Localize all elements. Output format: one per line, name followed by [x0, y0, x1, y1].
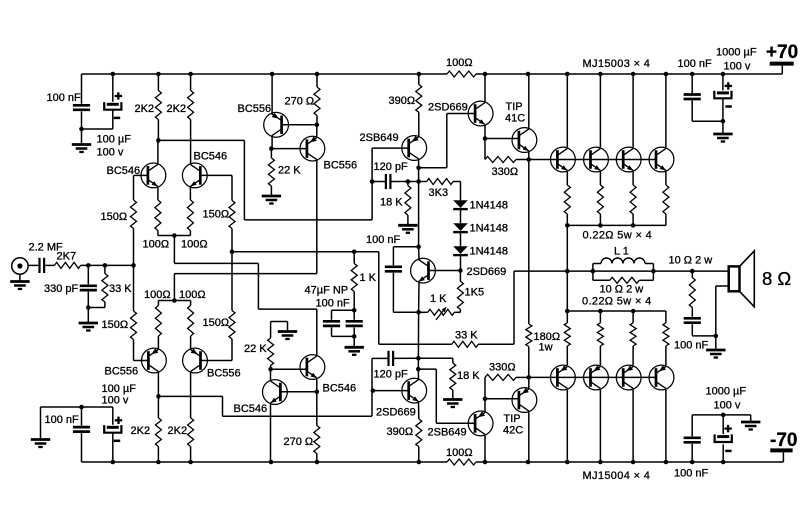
transistor Q BC546 (lower follower) [263, 380, 288, 405]
capacitor C 120pF (lower) [372, 351, 418, 366]
label 100 nF [316, 298, 351, 310]
wire MJ15004-3 collector [632, 390, 634, 462]
junction emitter bus 1 [565, 223, 570, 228]
svg-text:390Ω: 390Ω [387, 426, 414, 438]
label 270 Ω [284, 436, 314, 448]
label 120 pF [374, 369, 409, 381]
wire predriver emitter down [484, 125, 486, 159]
inductor L1 [593, 258, 654, 271]
wire 2SB649 collector to rail [484, 435, 486, 462]
resistor R 2K2 (right load) [188, 74, 194, 164]
transistor Q 2SD669 (lower predriver, in column) [402, 378, 427, 403]
svg-text:2K2: 2K2 [135, 103, 155, 115]
transistor Q 2SD669 (bias Vbe multiplier) [411, 258, 436, 283]
transistor Q 2SD669 (upper predriver) [468, 101, 493, 126]
junction bottom right ground node [721, 413, 726, 418]
junction TIP42C base node [483, 397, 488, 402]
svg-text:3K3: 3K3 [429, 187, 449, 199]
polarity + mark [115, 417, 122, 424]
wire column to lower driver link [417, 358, 419, 369]
svg-text:2K7: 2K7 [57, 251, 77, 263]
svg-text:270 Ω: 270 Ω [285, 96, 315, 108]
svg-text:100Ω: 100Ω [144, 289, 171, 301]
label 1N4148 [470, 246, 509, 258]
resistor R 1K5 [457, 271, 463, 313]
svg-text:100 v: 100 v [102, 394, 129, 406]
label 18 K [380, 197, 403, 209]
svg-text:100 nF: 100 nF [366, 234, 401, 246]
transistor Q TIP42C (lower driver) [512, 388, 537, 413]
ground top right [713, 121, 732, 141]
junction rail at MJ15004-3 collector [631, 460, 636, 465]
svg-text:100 nF: 100 nF [45, 414, 80, 426]
junction rail at predriver collector [483, 72, 488, 77]
label 41C [505, 113, 525, 125]
label BC556 [324, 160, 358, 172]
wire 330Ω lower to emitter node [516, 376, 529, 378]
resistor R 150Ω (outer base, upper) [131, 175, 137, 265]
label 100 nF [678, 58, 713, 70]
resistor R 1K (feedback shunt) [351, 252, 357, 310]
junction TIP41C base node [483, 136, 488, 141]
label 100Ω [179, 289, 206, 301]
polarity - mark [114, 117, 120, 120]
junction 270Ω bottom node [315, 123, 320, 128]
label BC546 [323, 383, 357, 395]
label 2K2 [167, 103, 187, 115]
ground input [10, 274, 29, 289]
label 100 nF [45, 414, 80, 426]
label MJ15003 × 4 [583, 58, 651, 70]
resistor R 2K2 (lower left load) [155, 396, 161, 462]
speaker LS1 [729, 251, 755, 307]
resistor R 0.22Ω 5w #3 (upper) [630, 172, 636, 226]
label 8 Ω [762, 268, 791, 289]
wire Q1 lower collector stub [157, 372, 159, 396]
svg-text:18 K: 18 K [457, 370, 480, 382]
wire lower output base bus [529, 376, 657, 378]
label 100 µF [102, 383, 137, 395]
junction rail at 390Ω top [417, 72, 422, 77]
polarity - mark [725, 105, 731, 108]
potentiometer R 1K [419, 307, 461, 320]
label BC546 [234, 403, 268, 415]
ground 18K upper [398, 225, 417, 233]
svg-text:41C: 41C [505, 113, 525, 125]
junction output at zobel [690, 269, 695, 274]
junction rail at TIP41C collector [526, 72, 531, 77]
svg-text:390Ω: 390Ω [389, 95, 416, 107]
label MJ15004 × 4 [583, 470, 651, 482]
junction rail at 270Ω top [315, 72, 320, 77]
resistor R 3K3 [419, 179, 461, 185]
junction lower riser at predriver base [371, 388, 376, 393]
junction rail at lower 270Ω [315, 460, 320, 465]
wire mid#1 emitter to rail [271, 74, 273, 114]
wire input to cap [28, 264, 38, 266]
wire MJ15003-1 collector [566, 74, 568, 147]
svg-text:2SB649: 2SB649 [428, 426, 467, 438]
svg-text:8 Ω: 8 Ω [762, 268, 791, 289]
input connector J1 [12, 258, 28, 274]
label TIP [506, 101, 523, 113]
svg-text:150Ω: 150Ω [203, 317, 230, 329]
junction output at emitter column [565, 269, 570, 274]
label 100 nF [366, 234, 401, 246]
wire lower predriver base link [373, 390, 409, 392]
wire decoupling node link [82, 128, 113, 130]
ground bottom right [741, 415, 760, 430]
svg-text:47µF NP: 47µF NP [305, 285, 349, 297]
wire 120pF line to column [408, 181, 419, 183]
label 100 µF [97, 134, 132, 146]
resistor R 150Ω (inner base, lower) [229, 252, 235, 361]
svg-text:0.22Ω 5w × 4: 0.22Ω 5w × 4 [582, 296, 652, 308]
wire 2K7 to node [81, 264, 134, 266]
junction driver collector node [416, 166, 421, 171]
svg-text:10 Ω 2 w: 10 Ω 2 w [600, 283, 644, 295]
label 2K2 [131, 425, 151, 437]
junction rail at 2K2 right [188, 72, 193, 77]
label 100Ω [181, 239, 208, 251]
junction input node at base column [131, 263, 136, 268]
resistor R 150Ω (outer base, lower) [131, 265, 137, 360]
label 2.2 MF [29, 242, 64, 254]
svg-text:100Ω: 100Ω [143, 239, 170, 251]
label 100Ω [143, 239, 170, 251]
junction lower interstage node [268, 367, 273, 372]
transistor Q MJ15004 #3 [616, 365, 641, 390]
wire lowmid#1 base link [280, 391, 316, 393]
label 1 K [430, 293, 447, 305]
svg-text:100Ω: 100Ω [446, 447, 473, 459]
resistor R 0.22Ω 5w #4 (upper) [663, 172, 669, 226]
wire lowmid#1 emitter to rail [270, 404, 272, 462]
wire MJ15004-1 collector [566, 390, 568, 462]
capacitor C 100nF bottom-left [73, 407, 90, 462]
svg-text:18 K: 18 K [380, 197, 403, 209]
label BC546 [194, 151, 228, 163]
junction output at L1 left [591, 269, 596, 274]
svg-text:1000 µF: 1000 µF [706, 386, 747, 398]
resistor R 150Ω (inner base, upper) [229, 175, 235, 251]
svg-text:270 Ω: 270 Ω [284, 436, 314, 448]
junction rail at mid emitter [270, 72, 275, 77]
svg-text:100 µF: 100 µF [97, 134, 132, 146]
label 2SD669 [467, 266, 507, 278]
svg-text:1N4148: 1N4148 [470, 200, 509, 212]
wire lower stage output line [159, 396, 373, 416]
wire mid#2 emitter stub [316, 125, 318, 137]
junction bias base node [458, 268, 463, 273]
junction 330pF/33K gnd node [86, 305, 91, 310]
label 100 nF [674, 468, 709, 480]
resistor R 100Ω (emitter lower left) [155, 301, 161, 349]
junction riser at 120pF [370, 179, 375, 184]
svg-text:100 v: 100 v [714, 399, 741, 411]
transistor Q MJ15003 #4 [649, 147, 674, 172]
junction zobel ground node [714, 334, 719, 339]
svg-text:150Ω: 150Ω [203, 209, 230, 221]
ground top-left [72, 129, 91, 152]
junction rail at top 1000µF [721, 72, 726, 77]
transistor Q MJ15003 #2 [584, 147, 609, 172]
junction rail at MJ15003-2 collector [598, 72, 603, 77]
wire TIP42C collector to rail [528, 412, 530, 462]
resistor R 180Ω 1w (driver chain) [526, 160, 532, 378]
wire D1-D2 [460, 210, 462, 224]
resistor R 0.22Ω 5w #1 (upper) [564, 172, 570, 226]
wire lower emitter bus [567, 310, 666, 312]
wire predriver base link upper [419, 114, 476, 168]
junction output at L1 right [651, 269, 656, 274]
junction rail at MJ15004-1 collector [565, 460, 570, 465]
svg-text:1 K: 1 K [430, 293, 447, 305]
svg-text:100 µF: 100 µF [102, 383, 137, 395]
wire to bottom ground [723, 414, 751, 416]
svg-text:120 pF: 120 pF [374, 161, 409, 173]
junction input node at 330pF [86, 263, 91, 268]
junction tail upper [172, 233, 177, 238]
junction lower emitter bus 3 [631, 309, 636, 314]
wire upper emitter bus [567, 224, 666, 226]
label 1 K [360, 272, 377, 284]
svg-text:1K5: 1K5 [465, 287, 485, 299]
capacitor C 100nF (top right) [684, 74, 723, 121]
wire bias emitter to pot node [418, 282, 420, 312]
label 100 v [102, 394, 129, 406]
label 180Ω [534, 331, 561, 343]
svg-text:BC546: BC546 [194, 151, 228, 163]
capacitor C 100µF electrolytic top-left [104, 74, 121, 129]
junction lower emitter bus 2 [598, 309, 603, 314]
capacitor C 100nF (bottom right) [684, 415, 723, 462]
label 10 Ω 2 w [669, 255, 713, 267]
wire base Q2 upper [200, 174, 232, 176]
svg-text:100 nF: 100 nF [678, 58, 713, 70]
junction Q1 lower collector node [156, 394, 161, 399]
label 150Ω [101, 211, 128, 223]
wire 2SB649 emitter up [484, 377, 486, 411]
resistor R 0.22Ω 5w #2 (lower) [597, 311, 603, 365]
diode D1 1N4148 [453, 200, 468, 209]
label BC556 [238, 103, 272, 115]
resistor R 100Ω (emitter lower right) [188, 301, 194, 349]
wire mid#2 base link [271, 148, 307, 150]
resistor R 390Ω (upper) [416, 74, 422, 136]
junction emitter bus 2 [598, 223, 603, 228]
label 150Ω [203, 209, 230, 221]
svg-text:MJ15004 × 4: MJ15004 × 4 [583, 470, 651, 482]
junction emitter bus 3 [631, 223, 636, 228]
transistor Q BC546 (lower CE) [300, 355, 325, 380]
resistor R 0.22Ω 5w #1 (lower) [564, 311, 570, 365]
transistor Q BC556 (input pair lower left) [142, 348, 167, 373]
ground bottom-left [31, 407, 50, 447]
wire MJ15004-4 collector [665, 390, 667, 462]
label 100 v [724, 61, 751, 73]
transistor Q MJ15004 #4 [649, 365, 674, 390]
svg-text:1N4148: 1N4148 [470, 246, 509, 258]
svg-text:10 Ω 2 w: 10 Ω 2 w [669, 255, 713, 267]
wire 3K3 to diode chain [460, 182, 462, 201]
svg-text:TIP: TIP [506, 101, 523, 113]
label 330Ω [489, 362, 516, 374]
resistor R 2K2 (lower right load) [188, 372, 194, 462]
label 2SD669 [376, 407, 416, 419]
wire tail lower to upper mirror [174, 274, 316, 301]
resistor R 10Ω 2w (parallel L1) [593, 271, 654, 283]
resistor R 18K (lower) [418, 358, 455, 399]
svg-text:100 v: 100 v [97, 146, 124, 158]
wire speaker return [716, 286, 729, 336]
transistor Q 2SB649 (upper driver, in column) [402, 136, 427, 161]
transistor Q BC556 (input pair lower right) [183, 348, 208, 373]
capacitor C 330pF [80, 265, 97, 307]
svg-text:100Ω: 100Ω [446, 57, 473, 69]
label 100Ω [144, 289, 171, 301]
wire riser to 2SB649 base [372, 148, 408, 220]
svg-text:22 K: 22 K [278, 165, 301, 177]
svg-text:2SD669: 2SD669 [376, 407, 416, 419]
junction rail at lower 390Ω [417, 460, 422, 465]
junction pot node [416, 310, 421, 315]
junction rail at MJ15004-2 collector [598, 460, 603, 465]
label 0.22Ω 5w × 4 [583, 230, 653, 242]
svg-text:1N4148: 1N4148 [470, 223, 509, 235]
wire 33K to output riser [478, 271, 514, 344]
svg-text:22 K: 22 K [244, 343, 267, 355]
junction rail at TIP42C collector [526, 460, 531, 465]
label 1w [539, 342, 553, 354]
wire +70 rail left segment [82, 73, 448, 75]
svg-text:0.22Ω 5w × 4: 0.22Ω 5w × 4 [583, 230, 653, 242]
wire base Q1 lower [134, 360, 149, 362]
capacitor C 100nF (bias compensation) [385, 247, 419, 313]
wire driver collector stub [418, 160, 420, 181]
transistor Q BC556 (2nd stage follower) [264, 112, 289, 137]
label 330 pF [44, 283, 79, 295]
junction 18K node upper [406, 179, 411, 184]
junction input node at 33K [103, 263, 108, 268]
junction tail lower [172, 298, 177, 303]
wire lower emitter bus to output node [566, 271, 568, 311]
junction rail at MJ15003-1 collector [565, 72, 570, 77]
svg-text:150Ω: 150Ω [102, 319, 129, 331]
junction lower 270Ω top node [315, 389, 320, 394]
transistor Q BC556 (2nd stage CE) [300, 136, 325, 161]
polarity - mark [725, 450, 731, 453]
label 1N4148 [470, 223, 509, 235]
junction 47µF top node [352, 308, 357, 313]
label 2K7 [57, 251, 77, 263]
svg-text:BC556: BC556 [105, 366, 139, 378]
wire column pot to lower 120pF line [417, 312, 419, 358]
capacitor C 100nF (zobel) [684, 318, 716, 336]
junction TIP42C emitter node [527, 375, 532, 380]
wire -70 rail left segment [82, 461, 448, 463]
svg-text:2K2: 2K2 [167, 103, 187, 115]
polarity + mark [725, 82, 732, 89]
svg-text:330Ω: 330Ω [489, 362, 516, 374]
wire predriver collector to rail [484, 74, 486, 102]
wire Q1 collector to 2K2 [157, 140, 159, 163]
svg-text:L 1: L 1 [614, 246, 629, 258]
junction feedback at 1K [352, 250, 357, 255]
wire MJ15004-2 collector [599, 390, 601, 462]
label 100 v [714, 399, 741, 411]
svg-text:BC556: BC556 [238, 103, 272, 115]
resistor 100Ω (bottom rail decoupling) [447, 459, 476, 465]
transistor Q BC546 (input pair upper left) [141, 163, 166, 188]
svg-text:1 K: 1 K [360, 272, 377, 284]
transistor Q TIP41C (upper driver) [512, 128, 537, 153]
junction top right ground node [721, 119, 726, 124]
label 100 nF [47, 92, 82, 104]
label 100 nF [674, 339, 709, 351]
label 33 K [109, 283, 132, 295]
label -70 [770, 430, 797, 451]
wire upper output base bus [529, 159, 657, 161]
junction rail at bottom 1000µF [721, 460, 726, 465]
wire base Q2 lower [201, 360, 233, 362]
junction column at comp cap top [416, 244, 421, 249]
wire column 120pF to 100nF node [418, 182, 420, 247]
wire TIP42C base link [485, 398, 519, 400]
capacitor C 47µF NP [323, 310, 354, 336]
junction rail at lower mid emitter [269, 460, 274, 465]
transistor Q MJ15004 #1 [551, 365, 576, 390]
resistor R 100Ω (emitter upper right) [187, 187, 193, 235]
wire 330Ω to emitter node [516, 159, 529, 161]
transistor Q MJ15003 #3 [616, 147, 641, 172]
label 150Ω [102, 319, 129, 331]
svg-text:1w: 1w [539, 342, 553, 354]
label 2SB649 [428, 426, 467, 438]
wire feedback line [232, 252, 452, 344]
junction rail at lower 2K2 right [188, 460, 193, 465]
label BC546 [107, 165, 141, 177]
resistor R 10Ω 2w (zobel) [689, 271, 695, 317]
resistor R 0.22Ω 5w #4 (lower) [663, 311, 669, 365]
resistor R 33K (input shunt) [88, 265, 108, 307]
resistor R 22K (lower) [268, 322, 288, 370]
svg-text:BC546: BC546 [323, 383, 357, 395]
junction rail at 100µF [111, 72, 116, 77]
label 100Ω [446, 447, 473, 459]
junction rail at 2K2 left [156, 72, 161, 77]
ground input filter [79, 308, 98, 331]
wire tail join lower [158, 300, 190, 302]
wire first stage output line [158, 140, 372, 220]
wire TIP41C base link [485, 138, 519, 140]
wire -70 rail right segment [476, 461, 783, 463]
capacitor C 100µF electrolytic bottom-left [104, 407, 121, 462]
svg-text:100 nF: 100 nF [674, 339, 709, 351]
resistor R 22K (upper) [268, 149, 274, 196]
label 18 K [457, 370, 480, 382]
wire mid#1 base link [282, 124, 317, 126]
diode D3 1N4148 [453, 246, 468, 255]
label 2K2 [135, 103, 155, 115]
junction 47µF bottom node [352, 334, 357, 339]
resistor R 330Ω (lower) [485, 374, 516, 380]
label 270 Ω [285, 96, 315, 108]
svg-text:2SB649: 2SB649 [360, 132, 399, 144]
wire -70 terminal riser [782, 452, 784, 462]
label 1000 µF [716, 47, 757, 59]
label 3K3 [429, 187, 449, 199]
